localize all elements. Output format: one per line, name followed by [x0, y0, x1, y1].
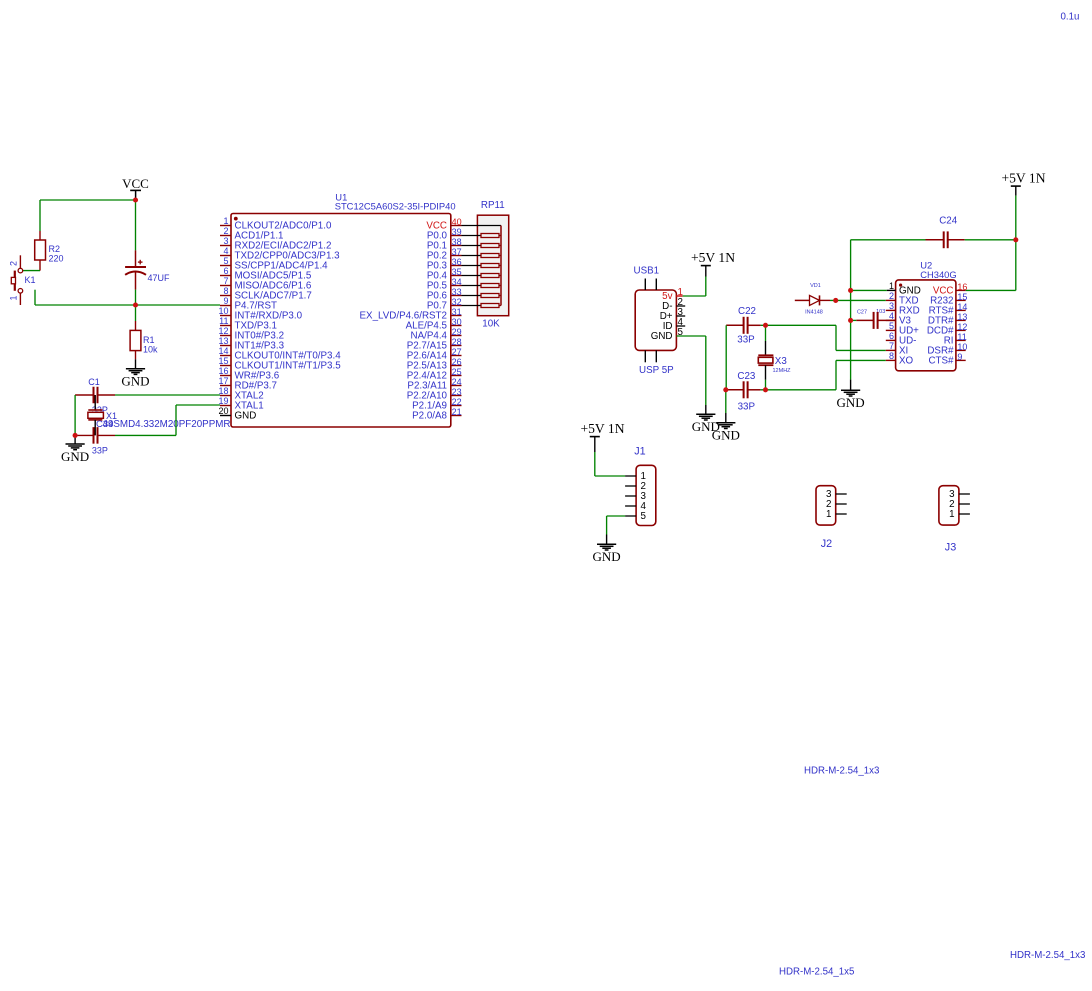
resistor R2 [35, 231, 46, 271]
U1 pin 25 P2.4/A12 [407, 367, 462, 382]
U1 pin 22 P2.1/A9 [412, 397, 461, 412]
wire C24 left to ground rail [851, 239, 926, 241]
svg-text:40: 40 [452, 217, 462, 227]
svg-text:6: 6 [889, 331, 894, 341]
U1 pin 36 P0.3 [427, 257, 462, 272]
U1 pin 7 MISO/ADC6/P1.6 [220, 276, 312, 292]
resistor R1 [130, 305, 141, 359]
svg-text:HDR-M-2.54_1x5: HDR-M-2.54_1x5 [779, 966, 854, 977]
svg-text:+5V 1N: +5V 1N [580, 421, 624, 436]
svg-text:VD1: VD1 [810, 283, 821, 289]
wire diode to U2 pin 2 [830, 299, 886, 301]
svg-text:K1: K1 [25, 275, 36, 285]
junction C23 ground node [723, 387, 728, 392]
U2 pin 3 RXD [886, 301, 920, 317]
U2 pin 5 UD+ [886, 321, 919, 337]
U1 pin 3 RXD2/ECI/ADC2/P1.2 [220, 236, 331, 252]
svg-text:15: 15 [218, 356, 228, 366]
connector J3 body [939, 486, 959, 525]
svg-text:VCC: VCC [122, 176, 149, 191]
svg-text:8: 8 [889, 351, 894, 361]
+5V 1N power port (USB) [691, 250, 735, 265]
svg-text:1: 1 [223, 216, 228, 226]
U1 pin 18 XTAL2 [218, 386, 263, 402]
wire USB1 pin 5 to ground [676, 336, 705, 414]
svg-text:21: 21 [452, 407, 462, 417]
capacitor C27 [851, 312, 896, 329]
U2 pin 12 DCD# [927, 322, 968, 337]
svg-text:C23: C23 [737, 371, 756, 382]
capacitor C34 [75, 427, 115, 444]
svg-text:27: 27 [452, 347, 462, 357]
junction +5V C24 node [1013, 237, 1018, 242]
svg-text:34: 34 [452, 277, 462, 287]
U1 pin 39 P0.0 [427, 227, 462, 242]
+5V 1N power port (J1) [580, 421, 624, 436]
U2 pin 11 RI [944, 332, 967, 347]
svg-text:5: 5 [223, 256, 228, 266]
J1 pin 2 [625, 481, 646, 492]
svg-text:GND: GND [235, 411, 257, 422]
svg-text:33P: 33P [92, 446, 108, 456]
wire C22 to junction [761, 324, 766, 326]
USB1 pin 2 D- [662, 297, 683, 312]
wire +5V to J1 pin 1 [595, 437, 625, 476]
svg-text:20: 20 [218, 406, 228, 416]
U2 pin 15 R232 [930, 292, 967, 307]
svg-text:+5V 1N: +5V 1N [1001, 171, 1045, 186]
svg-text:2: 2 [223, 226, 228, 236]
svg-text:J3: J3 [945, 541, 956, 553]
svg-text:38: 38 [452, 237, 462, 247]
connector J1 body [636, 465, 656, 525]
svg-text:9: 9 [957, 352, 962, 362]
svg-text:5: 5 [889, 321, 894, 331]
U1 pin 16 WR#/P3.6 [218, 366, 279, 382]
crystal X3 [758, 325, 773, 390]
svg-text:24: 24 [452, 377, 462, 387]
svg-text:GND: GND [61, 449, 89, 464]
U1 pin 34 P0.5 [427, 277, 462, 292]
J3 pin 1 [949, 509, 970, 520]
ground GND (U2) [837, 390, 865, 410]
U1 pin 15 CLKOUT1/INT#/T1/P3.5 [218, 356, 341, 372]
svg-text:HDR-M-2.54_1x3: HDR-M-2.54_1x3 [1010, 950, 1085, 961]
svg-text:GND: GND [121, 374, 149, 389]
svg-text:33P: 33P [737, 335, 755, 346]
svg-text:37: 37 [452, 247, 462, 257]
svg-text:12MHZ: 12MHZ [773, 368, 792, 374]
svg-text:P2.0/A8: P2.0/A8 [412, 411, 447, 422]
svg-text:8: 8 [223, 286, 228, 296]
capacitor C22 [726, 317, 760, 334]
wire C22 left to C23 left [725, 325, 727, 390]
junction diode TXD node [833, 298, 838, 303]
U1 pin 30 ALE/P4.5 [406, 317, 462, 332]
U1 pin 9 P4.7/RST [220, 296, 277, 312]
J1 pin 1 [625, 471, 646, 482]
svg-text:49SMD4.332M20PF20PPMROHS: 49SMD4.332M20PF20PPMROHS [103, 419, 253, 430]
svg-text:16: 16 [218, 366, 228, 376]
svg-text:9: 9 [223, 296, 228, 306]
J2 pin 3 [826, 489, 847, 500]
diode VD1 IN4148 [795, 295, 830, 305]
U1 pin 38 P0.1 [427, 237, 462, 252]
RP11 resistor element 1 (pin 39) [462, 234, 502, 238]
U1 pin 31 EX_LVD/P4.6/RST2 [360, 307, 462, 322]
svg-text:2: 2 [889, 291, 894, 301]
wire R2 to K1 pin 2 [23, 270, 40, 272]
svg-text:GND: GND [593, 549, 621, 564]
switch K1 [11, 255, 22, 305]
connector J2 body [816, 486, 836, 525]
svg-text:23: 23 [452, 387, 462, 397]
wire U2 pin 1 GND to ground rail [851, 289, 896, 291]
ground GND (crystal) [61, 444, 89, 464]
capacitor C1 [75, 387, 115, 404]
svg-text:C1: C1 [88, 377, 100, 387]
svg-text:5: 5 [641, 511, 647, 522]
junction ground rail / C27 [848, 318, 853, 323]
op-amp U2 body CH340G [896, 280, 956, 371]
svg-text:+5V 1N: +5V 1N [691, 250, 735, 265]
U1 pin 32 P0.7 [427, 297, 462, 312]
J2 pin 1 [826, 509, 847, 520]
svg-text:22: 22 [452, 397, 462, 407]
RP11 resistor element 5 (pin 35) [462, 274, 502, 278]
svg-text:29: 29 [452, 327, 462, 337]
U1 pin 28 P2.7/A15 [407, 337, 462, 352]
svg-text:3: 3 [223, 236, 228, 246]
svg-text:15: 15 [957, 292, 967, 302]
svg-text:13: 13 [957, 312, 967, 322]
svg-text:32: 32 [452, 297, 462, 307]
svg-text:1: 1 [826, 509, 831, 520]
RP11 resistor element 8 (pin 32) [462, 304, 502, 308]
U1 pin 19 XTAL1 [218, 396, 263, 412]
U1 pin 4 TXD2/CPP0/ADC3/P1.3 [220, 246, 340, 262]
wire to ground [74, 435, 76, 444]
svg-text:C22: C22 [738, 306, 756, 317]
svg-text:31: 31 [452, 307, 462, 317]
label R1 value 10k [143, 335, 158, 355]
wire C1 to U1 pin 18 XTAL2 [115, 394, 220, 396]
U1 pin 21 P2.0/A8 [412, 407, 461, 422]
svg-text:J2: J2 [821, 538, 832, 550]
svg-text:7: 7 [223, 276, 228, 286]
U2 pin 4 V3 [886, 311, 912, 327]
RP11 resistor element 2 (pin 38) [462, 244, 502, 248]
svg-text:3: 3 [889, 301, 894, 311]
svg-text:220: 220 [49, 254, 64, 264]
wire C23 to ground [725, 390, 727, 423]
wire RST net to U1 pin 9 [35, 304, 220, 306]
svg-text:1: 1 [9, 295, 19, 300]
svg-text:J1: J1 [634, 445, 645, 457]
wire R1 to ground [135, 359, 137, 368]
RP11 resistor element 3 (pin 37) [462, 254, 502, 258]
svg-text:13: 13 [218, 336, 228, 346]
svg-text:14: 14 [957, 302, 967, 312]
U1 pin 2 ACD1/P1.1 [220, 226, 284, 242]
svg-text:6: 6 [223, 266, 228, 276]
U1 pin 12 INT0#/P3.2 [218, 326, 284, 342]
svg-text:XO: XO [899, 356, 914, 367]
U1 pin 26 P2.5/A13 [407, 357, 462, 372]
svg-text:4: 4 [889, 311, 894, 321]
J3 pin 2 [949, 499, 970, 510]
connector USB1 body [635, 279, 676, 363]
U1 pin 8 SCLK/ADC7/P1.7 [220, 286, 312, 302]
svg-text:USB1: USB1 [634, 266, 660, 277]
ground GND (USB1) [692, 414, 720, 434]
U2 pin 1 GND [889, 281, 921, 297]
USB1 pin stubs 2-4 [676, 306, 685, 326]
capacitor C2 47UF electrolytic [125, 200, 146, 305]
svg-text:11: 11 [957, 332, 966, 342]
wire C24 right to +5V [965, 239, 1016, 241]
svg-text:USP 5P: USP 5P [639, 365, 674, 376]
USB1 pin 4 ID [663, 317, 684, 332]
U2 pin 2 TXD [886, 291, 919, 307]
svg-text:14: 14 [218, 346, 228, 356]
J1 pin 5 [625, 511, 646, 522]
svg-text:19: 19 [218, 396, 228, 406]
wire ground rail vertical [850, 240, 852, 390]
capacitor C23 [726, 381, 761, 398]
U2 pin 9 CTS# [928, 352, 965, 367]
svg-text:25: 25 [452, 367, 462, 377]
U2 pin 6 UD- [886, 331, 917, 347]
U2 pin 14 RTS# [929, 302, 968, 317]
U1 pin 20 GND [218, 406, 256, 422]
svg-text:1: 1 [889, 281, 894, 291]
wire J1 pin 5 to ground [607, 516, 626, 544]
U1 pin 27 P2.6/A14 [407, 347, 462, 362]
svg-text:C27: C27 [857, 310, 867, 316]
U1 pin 24 P2.3/A11 [407, 377, 461, 392]
svg-text:10: 10 [957, 342, 967, 352]
RP11 resistor element 4 (pin 36) [462, 264, 502, 268]
svg-text:33P: 33P [738, 402, 756, 413]
svg-text:36: 36 [452, 257, 462, 267]
USB1 pin 1 5v [662, 287, 683, 302]
svg-text:GND: GND [837, 395, 865, 410]
svg-text:R2: R2 [49, 244, 61, 254]
svg-text:10K: 10K [482, 319, 500, 330]
svg-text:39: 39 [452, 227, 462, 237]
junction XI node [763, 323, 768, 328]
U1 pin 14 CLKOUT0/INT#/T0/P3.4 [218, 346, 341, 362]
U2 pin 7 XI [886, 341, 908, 357]
U1 pin 17 RD#/P3.7 [218, 376, 277, 392]
wire XO node to U2 pin 8 [761, 360, 886, 389]
wire K1 pin1 stub to RST net [34, 290, 36, 305]
U2 pin 8 XO [886, 351, 914, 367]
svg-text:33: 33 [452, 287, 462, 297]
svg-text:7: 7 [889, 341, 894, 351]
svg-text:10k: 10k [143, 345, 158, 355]
svg-text:HDR-M-2.54_1x3: HDR-M-2.54_1x3 [804, 766, 879, 777]
svg-text:12: 12 [218, 326, 228, 336]
svg-text:2: 2 [9, 261, 19, 266]
svg-text:35: 35 [452, 267, 462, 277]
RP11 resistor element 7 (pin 33) [462, 294, 502, 298]
wire U1 pin 40 to RP11 common [462, 225, 502, 227]
USB1 pin 3 D+ [660, 307, 684, 322]
svg-text:28: 28 [452, 337, 462, 347]
U1 pin 40 VCC [426, 217, 461, 232]
USB1 pin 5 GND [651, 327, 684, 342]
svg-text:R1: R1 [143, 335, 155, 345]
junction ground rail / U2 pin 1 [848, 288, 853, 293]
svg-text:GND: GND [651, 331, 673, 342]
capacitor C24 [926, 231, 965, 248]
U1 pin 33 P0.6 [427, 287, 462, 302]
U1 pin 23 P2.2/A10 [407, 387, 462, 402]
svg-text:11: 11 [219, 316, 228, 326]
svg-text:12: 12 [957, 322, 967, 332]
ground GND (J1) [593, 544, 621, 564]
svg-text:RP11: RP11 [481, 200, 505, 211]
J3 pin 3 [949, 489, 970, 500]
svg-text:18: 18 [218, 386, 228, 396]
junction VCC node [133, 197, 138, 202]
U1 pin 35 P0.4 [427, 267, 462, 282]
wire XI node to U2 pin 7 [766, 325, 886, 350]
svg-text:C24: C24 [939, 215, 958, 226]
junction RST node [133, 302, 138, 307]
svg-text:X3: X3 [775, 356, 788, 367]
node VCC power port [122, 176, 149, 200]
svg-text:10: 10 [218, 306, 228, 316]
U1 pin 10 INT#/RXD/P3.0 [218, 306, 302, 322]
svg-text:CH340G: CH340G [920, 269, 956, 280]
ground GND (C23) [712, 423, 740, 443]
U2 pin 13 DTR# [928, 312, 968, 327]
U2 pin 16 VCC [933, 282, 968, 297]
svg-text:0.1u: 0.1u [1061, 11, 1080, 22]
svg-text:4: 4 [223, 246, 228, 256]
ground GND (R1) [121, 369, 149, 389]
svg-text:26: 26 [452, 357, 462, 367]
U2 pin 10 DSR# [927, 342, 967, 357]
wire VCC to R2 top [40, 200, 136, 231]
RP11 common rail [500, 226, 502, 306]
svg-text:STC12C5A60S2-35I-PDIP40: STC12C5A60S2-35I-PDIP40 [335, 200, 456, 211]
label R2 value 220 [49, 244, 64, 264]
wire C34 to U1 pin 19 XTAL1 [115, 405, 220, 435]
svg-text:GND: GND [712, 428, 740, 443]
U1 pin 29 NA/P4.4 [411, 327, 462, 342]
J2 pin 2 [826, 499, 847, 510]
+5V 1N power port (C24) [1001, 171, 1045, 186]
op-amp U1 body STC12C5A60S2-35I-PDIP40 [231, 214, 451, 428]
wire +5V down to VCC pin 16 [966, 186, 1016, 290]
svg-text:30: 30 [452, 317, 462, 327]
J1 pin 4 [625, 501, 646, 512]
U1 pin 5 SS/CPP1/ADC4/P1.4 [220, 256, 328, 272]
U1 pin 37 P0.2 [427, 247, 462, 262]
junction crystal ground node [73, 433, 78, 438]
J1 pin 3 [625, 491, 646, 502]
RP11 resistor element 6 (pin 34) [462, 284, 502, 288]
U1 pin 6 MOSI/ADC5/P1.5 [220, 266, 312, 282]
wire C1 to C34 left [74, 395, 76, 435]
wire +5V to USB1 pin 1 [676, 266, 705, 296]
svg-text:CTS#: CTS# [928, 356, 954, 367]
U1 pin 1 CLKOUT2/ADC0/P1.0 [220, 216, 332, 232]
svg-text:1: 1 [949, 509, 954, 520]
U1 pin 11 TXD/P3.1 [219, 316, 277, 332]
svg-text:IN4148: IN4148 [805, 310, 823, 316]
svg-text:17: 17 [218, 376, 228, 386]
crystal X1 [88, 395, 104, 435]
svg-text:47UF: 47UF [148, 273, 171, 283]
resistor network RP11 body [477, 215, 508, 316]
U1 pin 13 INT1#/P3.3 [218, 336, 284, 352]
junction XO node [763, 387, 768, 392]
